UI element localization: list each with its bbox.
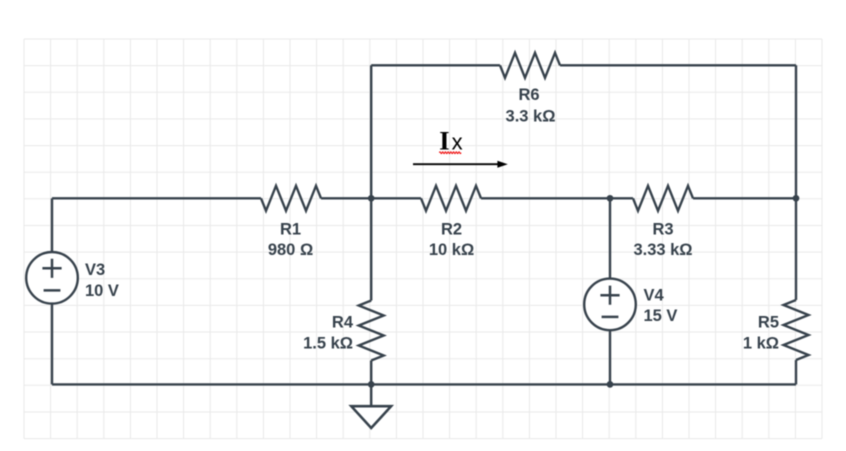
svg-text:3.3 kΩ: 3.3 kΩ <box>506 107 556 125</box>
resistor R4 zigzag <box>359 301 384 361</box>
wire: middle horizontal R1-R2 segment <box>321 197 421 199</box>
wire: top horizontal left of R6 <box>371 64 500 66</box>
ground stem <box>370 384 372 406</box>
wire: node B down to V4 <box>609 198 611 278</box>
voltage source V3 circle <box>26 252 78 304</box>
V4 minus sign <box>602 316 619 319</box>
resistor R6 zigzag <box>500 53 560 78</box>
resistor R3 zigzag <box>633 186 693 211</box>
wire: R4 down to bottom wire <box>370 361 372 385</box>
wire: top horizontal right of R6 <box>560 64 796 66</box>
svg-text:x: x <box>452 130 463 155</box>
wire: middle horizontal R3-right segment <box>693 197 796 199</box>
svg-text:R5: R5 <box>758 314 779 332</box>
svg-text:15 V: 15 V <box>644 307 678 325</box>
svg-text:10 kΩ: 10 kΩ <box>429 241 474 259</box>
svg-text:980 Ω: 980 Ω <box>268 241 313 259</box>
wire: right vertical middle-to-R5 <box>795 198 797 300</box>
svg-text:R3: R3 <box>652 221 673 239</box>
wire: right vertical top-to-middle <box>795 65 797 198</box>
resistor R2 zigzag <box>421 186 481 211</box>
wire: R5 down to bottom wire <box>795 360 797 384</box>
svg-text:R4: R4 <box>332 314 354 332</box>
resistor R1 zigzag <box>261 186 321 211</box>
junction node D (371,384) <box>368 381 375 388</box>
current arrow Ix <box>413 163 498 165</box>
svg-text:10 V: 10 V <box>85 282 119 300</box>
V3 minus sign <box>44 289 61 292</box>
wire: middle horizontal left segment <box>52 197 261 199</box>
spellcheck squiggle under Ix <box>439 152 461 154</box>
ground triangle <box>351 406 391 428</box>
svg-text:V3: V3 <box>85 261 105 279</box>
svg-text:1 kΩ: 1 kΩ <box>743 334 779 352</box>
svg-text:R2: R2 <box>441 221 462 239</box>
junction node B (610,198) <box>607 195 614 202</box>
junction node E (610,384) <box>607 381 614 388</box>
wire: left vertical above V3 <box>51 198 53 252</box>
svg-text:R1: R1 <box>280 221 301 239</box>
svg-text:I: I <box>439 126 449 156</box>
V3 plus sign <box>42 259 61 291</box>
wire: bottom horizontal <box>52 383 796 385</box>
junction node C (796,198) <box>793 195 800 202</box>
wire: middle horizontal R2-R3 segment <box>481 197 633 199</box>
svg-text:3.33 kΩ: 3.33 kΩ <box>633 241 692 259</box>
svg-text:R6: R6 <box>518 86 539 104</box>
voltage source V4 circle <box>584 279 636 331</box>
wire: riser from node A to top wire <box>370 65 372 198</box>
svg-text:V4: V4 <box>644 287 665 305</box>
svg-text:1.5 kΩ: 1.5 kΩ <box>303 334 353 352</box>
wire: node A down to R4 <box>370 198 372 300</box>
wire: left vertical below V3 <box>51 304 53 385</box>
V4 plus sign <box>600 286 619 317</box>
resistor R5 zigzag <box>784 300 809 360</box>
junction node A (371,198) <box>368 195 375 202</box>
wire: V4 down to bottom wire <box>609 330 611 384</box>
